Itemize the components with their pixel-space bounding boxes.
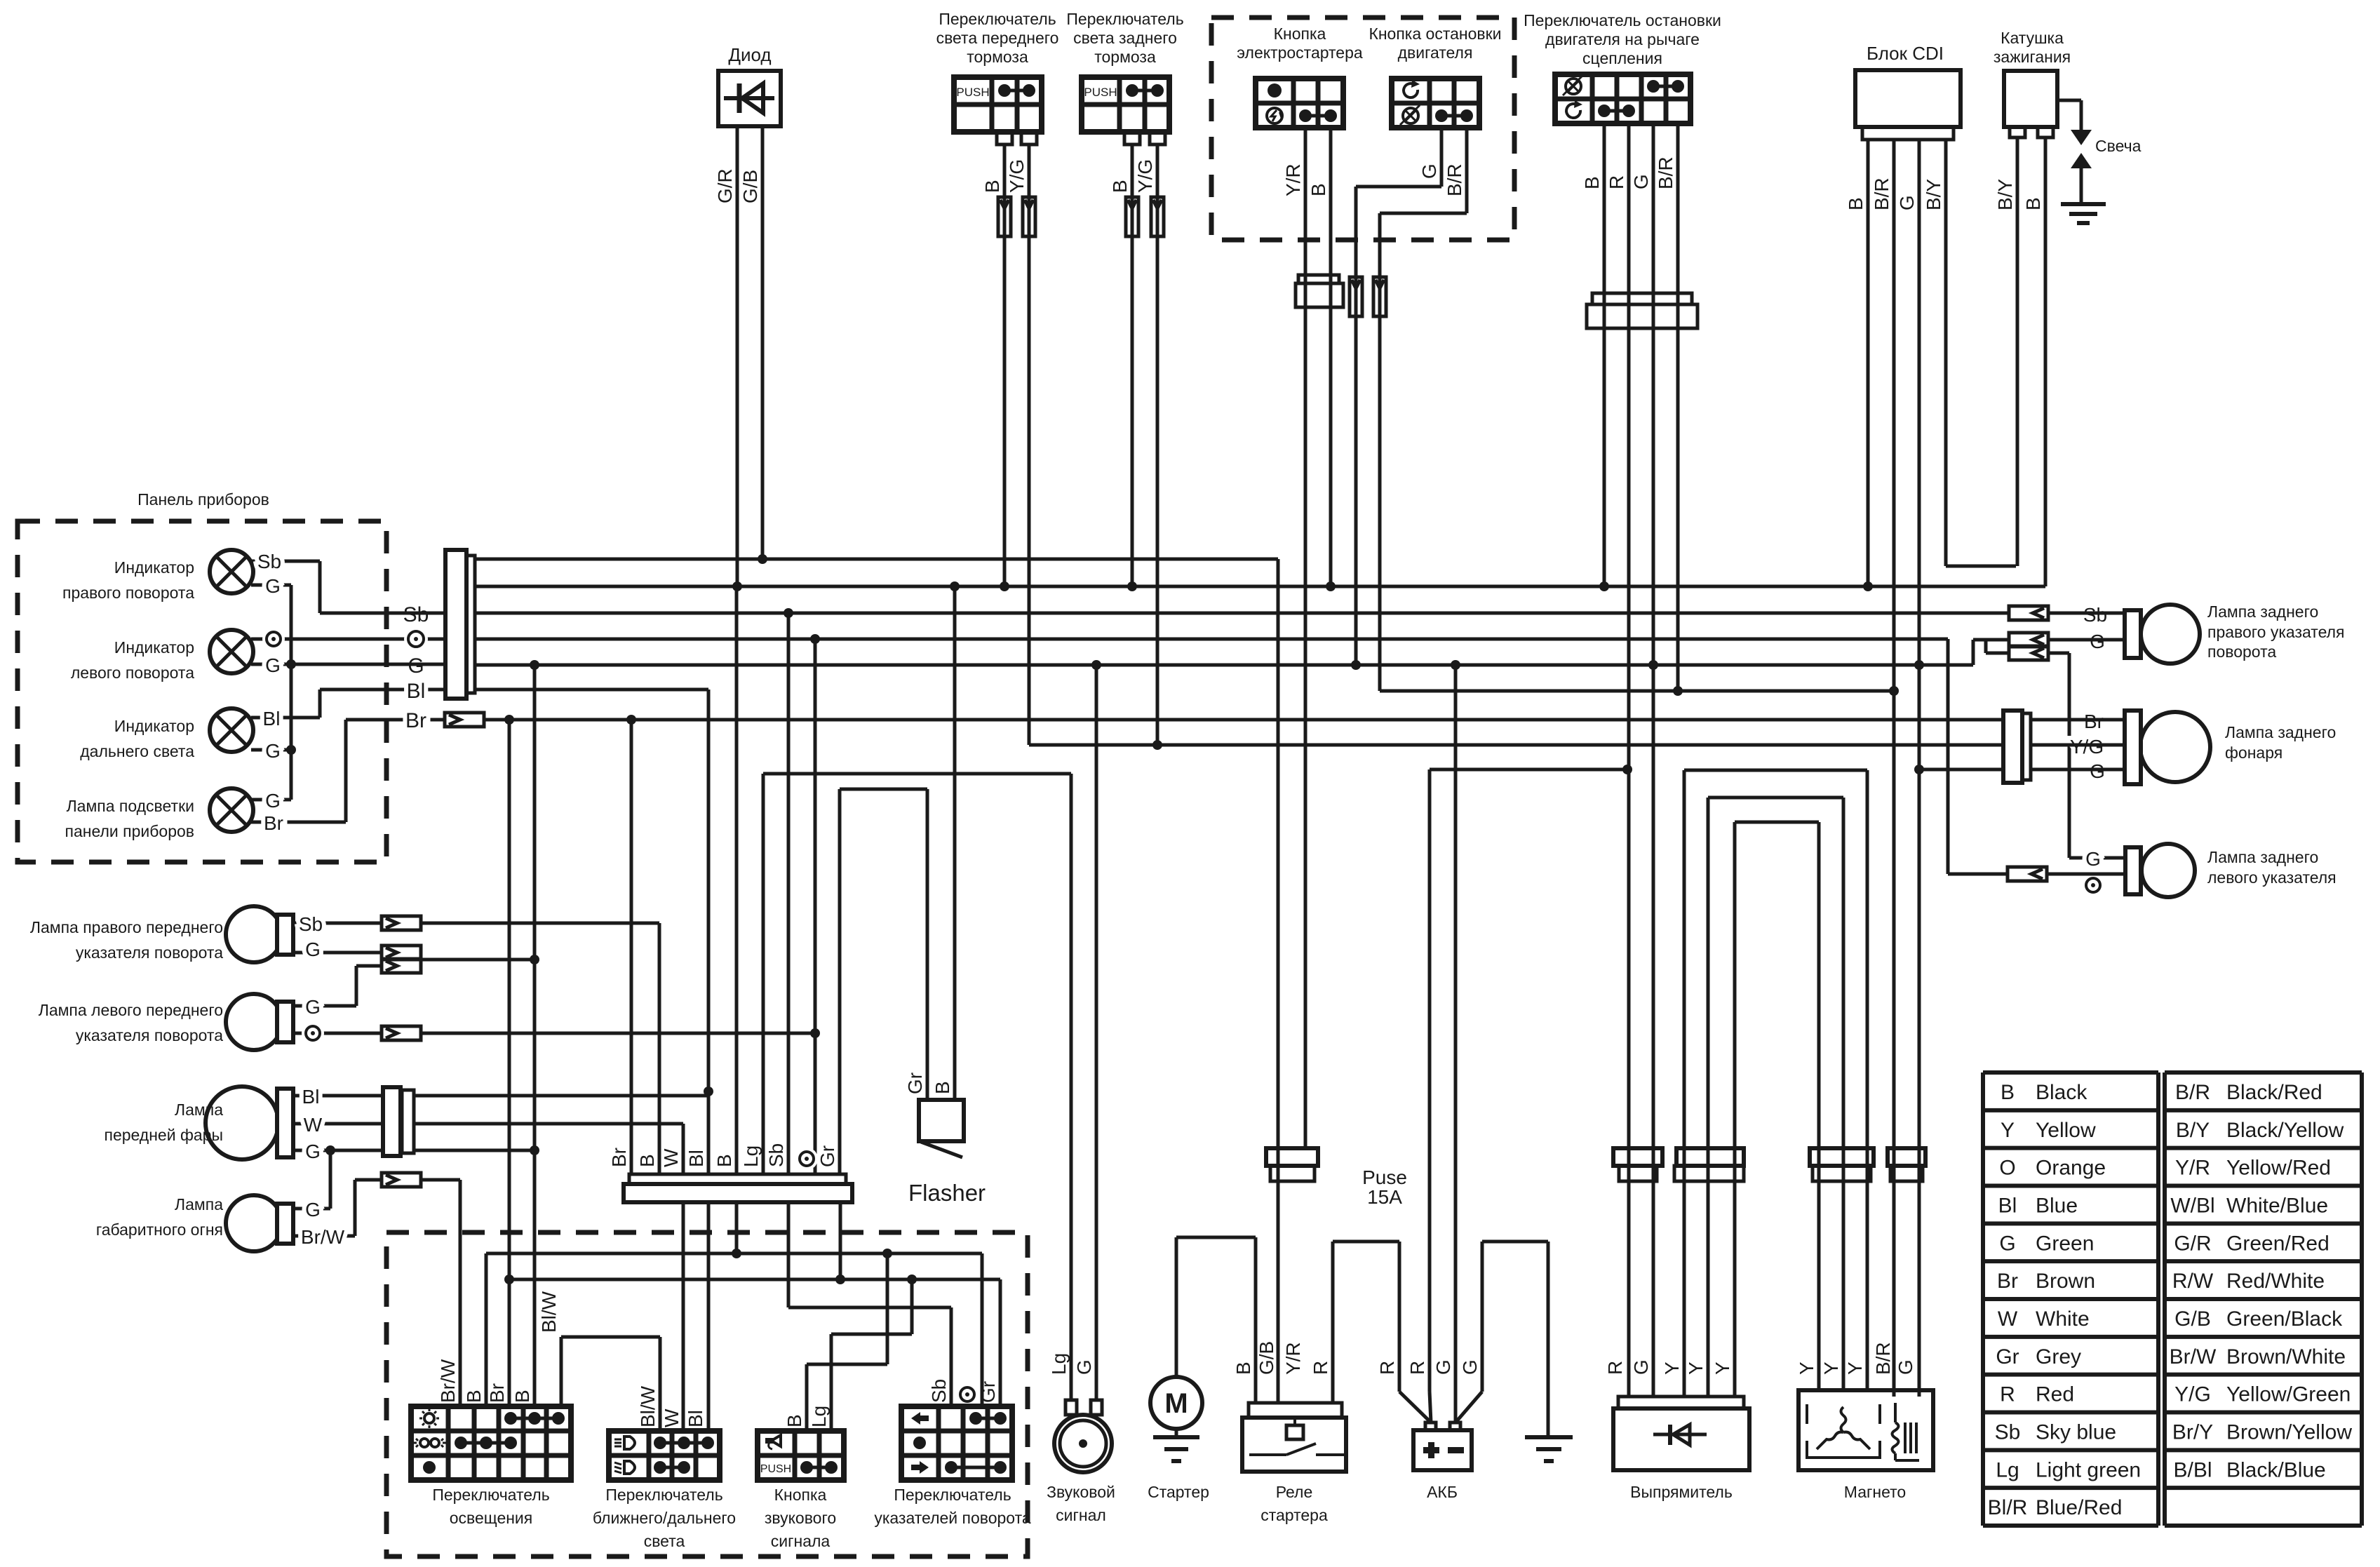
label B2 lighting bbox=[511, 1390, 533, 1403]
label B2 harness bbox=[713, 1154, 735, 1167]
svg-text:B/Y: B/Y bbox=[1994, 179, 2016, 210]
wire CDI B/R bbox=[1892, 140, 1896, 1397]
wire Sb right-turn indicator bbox=[251, 561, 320, 613]
junction B pin bbox=[732, 1249, 741, 1258]
flasher bracket bbox=[921, 1142, 962, 1157]
label Bl harness bbox=[685, 1150, 707, 1167]
svg-text:Gr: Gr bbox=[1996, 1345, 2019, 1368]
wire Br panel lamp bbox=[251, 720, 445, 822]
label Диод bbox=[728, 44, 771, 65]
svg-text:Y/R: Y/R bbox=[2175, 1157, 2210, 1180]
svg-text:света переднего: света переднего bbox=[936, 29, 1059, 47]
symbol SW3 start bbox=[1267, 108, 1282, 123]
tail lamp bbox=[2125, 711, 2210, 784]
label Lg harness bbox=[740, 1145, 762, 1167]
label B relay bbox=[1232, 1361, 1254, 1375]
junction G horn bbox=[1091, 660, 1101, 670]
wire harness Gr bbox=[838, 789, 842, 1174]
label W bbox=[304, 1114, 323, 1136]
label Переключатель освещения bbox=[432, 1486, 549, 1527]
wire coil B bbox=[2044, 137, 2048, 586]
svg-text:W: W bbox=[1998, 1307, 2018, 1331]
wire Y/G tail bbox=[2031, 744, 2125, 747]
svg-text:панели приборов: панели приборов bbox=[65, 822, 195, 840]
svg-text:R: R bbox=[1376, 1361, 1398, 1375]
label R SW5 bbox=[1606, 175, 1627, 189]
svg-text:PUSH: PUSH bbox=[1084, 86, 1117, 99]
wire G common to trunk bbox=[421, 958, 535, 962]
symbol position light bbox=[413, 1439, 446, 1447]
wire Bl to harness bbox=[414, 1094, 708, 1098]
svg-text:B/R: B/R bbox=[1871, 177, 1892, 210]
svg-text:указателя поворота: указателя поворота bbox=[76, 943, 223, 962]
wire harness W low bbox=[682, 1202, 685, 1431]
indicator lamp left turn bbox=[210, 630, 253, 673]
svg-text:Red: Red bbox=[2036, 1383, 2074, 1406]
svg-text:стартера: стартера bbox=[1260, 1506, 1328, 1524]
wire battery G ground bbox=[1455, 1242, 1548, 1437]
svg-text:Y/G: Y/G bbox=[2174, 1383, 2211, 1406]
label Bl at connector bbox=[407, 680, 426, 703]
connector G rear double bbox=[2009, 633, 2048, 660]
wire horn B riser bbox=[807, 1253, 887, 1431]
magneto winding bbox=[1807, 1404, 1880, 1458]
wire Lg line bbox=[763, 772, 1071, 776]
switch SW3 starter button box bbox=[1256, 79, 1343, 128]
wire harness O bbox=[814, 639, 817, 1174]
headlamp bbox=[206, 1087, 293, 1159]
label G horn wire bbox=[1073, 1359, 1095, 1375]
wire rect Y2 bbox=[1707, 798, 1710, 1397]
wire Br tail bbox=[2031, 718, 2125, 722]
harness connector bars bbox=[624, 1174, 852, 1202]
wire starter B bbox=[1176, 1237, 1256, 1403]
svg-text:B: B bbox=[2022, 197, 2044, 210]
svg-text:Переключатель: Переключатель bbox=[939, 10, 1056, 28]
svg-text:B: B bbox=[713, 1154, 735, 1167]
svg-text:указателей поворота: указателей поворота bbox=[874, 1509, 1031, 1527]
svg-text:M: M bbox=[1164, 1388, 1188, 1419]
label O bbox=[302, 1022, 324, 1044]
svg-text:двигателя на рычаге: двигателя на рычаге bbox=[1545, 30, 1700, 48]
wire SW4 B/R bbox=[1380, 128, 1467, 691]
junction Bl headlamp bbox=[704, 1087, 713, 1096]
svg-text:Индикатор: Индикатор bbox=[114, 638, 194, 657]
svg-text:Bl: Bl bbox=[1998, 1195, 2017, 1218]
symbol lamp on bbox=[419, 1408, 439, 1428]
wire CDI G bbox=[1918, 140, 1921, 1397]
wire G right-turn indicator bbox=[251, 584, 291, 587]
symbol horn bbox=[767, 1435, 781, 1449]
label G bbox=[265, 575, 281, 597]
label Y1 bbox=[1661, 1361, 1683, 1375]
junction G CDI low bbox=[1914, 765, 1924, 774]
svg-text:Lg: Lg bbox=[808, 1406, 830, 1427]
svg-text:Yellow: Yellow bbox=[2036, 1119, 2096, 1142]
rectifier connector R G bbox=[1613, 1148, 1662, 1181]
wire G headlamp bbox=[293, 1149, 383, 1152]
svg-text:Br: Br bbox=[608, 1148, 630, 1167]
svg-text:B/Y: B/Y bbox=[2176, 1119, 2210, 1142]
wire harness Br bbox=[630, 720, 633, 1174]
wire SW1 B bbox=[1003, 144, 1007, 586]
label Индикатор правого поворота bbox=[62, 558, 194, 602]
label O at connector bbox=[404, 627, 428, 651]
wire rect Y3 bbox=[1733, 822, 1737, 1397]
label Sb bbox=[299, 913, 323, 935]
wire diode G/R bbox=[736, 126, 739, 586]
wire SW2 Y/G bbox=[1156, 144, 1159, 745]
starter motor bbox=[1150, 1377, 1202, 1429]
svg-text:Y: Y bbox=[1661, 1361, 1683, 1375]
svg-text:Y/R: Y/R bbox=[1282, 163, 1304, 196]
junction CDI B bbox=[1863, 581, 1873, 591]
spark gap up arrow bbox=[2071, 153, 2092, 204]
junction G/R and harness B bbox=[732, 581, 742, 591]
label Sb rear bbox=[2083, 604, 2107, 626]
contacts SW5 row2 bbox=[1598, 105, 1635, 117]
label O symbol bbox=[262, 628, 285, 650]
wire Br line bbox=[484, 718, 2003, 722]
wire magneto Y3 bbox=[1866, 770, 1869, 1390]
connector on Br wire bbox=[445, 713, 484, 727]
symbol SW3 off bbox=[1268, 83, 1282, 97]
label Выпрямитель bbox=[1630, 1483, 1733, 1501]
svg-text:G: G bbox=[1999, 1232, 2015, 1255]
wire W headlamp bbox=[293, 1122, 383, 1126]
bus G bbox=[475, 640, 2009, 665]
svg-text:Green/Red: Green/Red bbox=[2226, 1232, 2329, 1255]
svg-text:Yellow/Green: Yellow/Green bbox=[2226, 1383, 2351, 1406]
instrument panel connector bbox=[445, 550, 475, 699]
junction G stop button bbox=[1351, 660, 1361, 670]
label Кнопка электростартера bbox=[1237, 25, 1363, 62]
symbol low beam bbox=[614, 1437, 635, 1449]
svg-text:Звуковой: Звуковой bbox=[1047, 1483, 1115, 1501]
junction Br jog bbox=[504, 1275, 514, 1284]
CDI unit box bbox=[1855, 70, 1961, 127]
label Магнето bbox=[1844, 1483, 1906, 1501]
svg-text:габаритного огня: габаритного огня bbox=[96, 1220, 223, 1239]
svg-text:G: G bbox=[305, 1199, 321, 1220]
svg-text:Puse: Puse bbox=[1362, 1166, 1407, 1188]
contacts SW4 bbox=[1435, 109, 1473, 122]
svg-text:Переключатель: Переключатель bbox=[432, 1486, 549, 1504]
svg-text:B: B bbox=[981, 180, 1003, 193]
magneto box bbox=[1799, 1390, 1933, 1470]
wire Br/W to switch bbox=[421, 1180, 460, 1406]
svg-text:B/R: B/R bbox=[1444, 163, 1465, 196]
position lamp bbox=[226, 1195, 293, 1251]
junction Br lighting switch bbox=[504, 715, 514, 725]
junction G branch bbox=[325, 1145, 335, 1155]
svg-text:B: B bbox=[932, 1081, 953, 1094]
dashed box handlebar switches bbox=[386, 1232, 1028, 1556]
svg-text:правого поворота: правого поворота bbox=[62, 584, 194, 602]
wire W to harness bbox=[414, 1124, 683, 1174]
label Звуковой сигнал bbox=[1047, 1483, 1115, 1524]
svg-text:G: G bbox=[305, 996, 321, 1018]
svg-text:Sb: Sb bbox=[257, 551, 281, 572]
label Br harness bbox=[608, 1148, 630, 1167]
wire horn Lg bbox=[1070, 774, 1073, 1400]
wire CDI B bbox=[1867, 140, 1870, 586]
label G magneto bbox=[1895, 1359, 1916, 1375]
svg-text:Лампа заднего: Лампа заднего bbox=[2225, 723, 2336, 741]
label Лампа заднего фонаря bbox=[2225, 723, 2336, 762]
label Y2 bbox=[1685, 1361, 1707, 1375]
headlamp connector bbox=[383, 1087, 414, 1156]
label Bl bbox=[263, 708, 281, 729]
symbol SW4 stop bbox=[1400, 105, 1420, 125]
svg-text:Gr: Gr bbox=[904, 1072, 926, 1094]
svg-text:Переключатель остановки: Переключатель остановки bbox=[1524, 11, 1721, 29]
junction rear brake B bbox=[1127, 581, 1137, 591]
label Свеча bbox=[2095, 137, 2142, 155]
wire O front left turn bbox=[293, 1032, 382, 1035]
label Br at connector bbox=[405, 709, 426, 732]
junction R rectifier bbox=[1622, 765, 1632, 774]
label Индикатор дальнего света bbox=[80, 717, 194, 760]
coil pin tabs bbox=[2010, 127, 2053, 137]
label Лампа габаритного огня bbox=[96, 1195, 223, 1239]
wire O left rear bbox=[1948, 873, 2125, 876]
svg-text:Переключатель: Переключатель bbox=[1066, 10, 1183, 28]
diode D1 box bbox=[718, 71, 781, 126]
svg-text:ближнего/дальнего: ближнего/дальнего bbox=[593, 1509, 736, 1527]
contacts SW1 bbox=[998, 84, 1035, 97]
wire CDI B/Y bbox=[1946, 140, 2016, 566]
svg-text:Y: Y bbox=[1820, 1361, 1842, 1375]
junction horn B riser bbox=[882, 1249, 892, 1258]
svg-text:G: G bbox=[265, 654, 281, 676]
connector double G bbox=[382, 946, 421, 973]
svg-text:PUSH: PUSH bbox=[760, 1463, 791, 1475]
connector on SW4 B/R wire bbox=[1373, 277, 1386, 316]
svg-text:Sb: Sb bbox=[928, 1379, 950, 1403]
label G bbox=[265, 654, 281, 676]
diode D1 symbol bbox=[724, 83, 774, 113]
svg-text:Br: Br bbox=[405, 709, 426, 732]
label Bl/W beam bbox=[637, 1385, 659, 1427]
label Lg horn bbox=[808, 1406, 830, 1427]
contacts SW3 bbox=[1299, 109, 1337, 122]
wire relay R bbox=[1333, 1242, 1431, 1423]
svg-text:G: G bbox=[1459, 1359, 1481, 1375]
svg-text:B/R: B/R bbox=[1655, 156, 1676, 189]
label Lg horn wire bbox=[1048, 1353, 1070, 1375]
contacts SW8 bbox=[800, 1461, 838, 1474]
label Индикатор левого поворота bbox=[71, 638, 194, 682]
svg-text:Стартер: Стартер bbox=[1148, 1483, 1209, 1501]
svg-text:Br/W: Br/W bbox=[2170, 1345, 2217, 1368]
svg-text:Выпрямитель: Выпрямитель bbox=[1630, 1483, 1733, 1501]
svg-text:сцепления: сцепления bbox=[1582, 49, 1662, 67]
label Y1 magneto bbox=[1796, 1361, 1817, 1375]
label G rear bbox=[2090, 631, 2105, 652]
svg-text:Green: Green bbox=[2036, 1232, 2094, 1255]
svg-text:G/B: G/B bbox=[2174, 1307, 2211, 1331]
svg-text:Индикатор: Индикатор bbox=[114, 558, 194, 577]
junction G trunk front bbox=[530, 955, 539, 964]
contacts SW7 row1 bbox=[654, 1437, 714, 1449]
wire coil HT to spark plug bbox=[2057, 100, 2092, 145]
connector bars on Y/R,B pair bbox=[1296, 275, 1343, 307]
svg-text:Лампа: Лампа bbox=[175, 1195, 223, 1213]
symbol off bbox=[423, 1461, 436, 1474]
label Flasher bbox=[908, 1180, 986, 1206]
label Sb at connector bbox=[403, 603, 429, 626]
symbol off turn bbox=[913, 1437, 926, 1449]
rear left turn lamp bbox=[2125, 844, 2195, 897]
svg-text:АКБ: АКБ bbox=[1427, 1483, 1458, 1501]
svg-text:Bl: Bl bbox=[407, 680, 426, 703]
wire SW4 G bbox=[1356, 128, 1441, 665]
wire diode G/B bbox=[761, 126, 765, 559]
connector on SW2 B wire bbox=[1126, 197, 1138, 236]
pin tabs SW1 bbox=[997, 132, 1037, 144]
svg-text:Blue/Red: Blue/Red bbox=[2036, 1496, 2122, 1519]
wire SW1 Y/G bbox=[1028, 144, 1031, 745]
svg-text:дальнего света: дальнего света bbox=[80, 742, 194, 760]
magneto connector YYY bbox=[1810, 1148, 1874, 1181]
label Панель приборов bbox=[137, 490, 269, 509]
junction bbox=[286, 745, 296, 755]
label Лампа заднего левого указателя bbox=[2207, 848, 2337, 887]
label PUSH SW1 bbox=[956, 86, 989, 99]
svg-text:B/Y: B/Y bbox=[1923, 179, 1944, 210]
svg-text:G: G bbox=[1073, 1359, 1095, 1375]
label B/Y coil bbox=[1994, 179, 2016, 210]
wire Br jog line bbox=[509, 720, 1000, 1406]
front left turn lamp bbox=[226, 994, 293, 1050]
svg-text:Orange: Orange bbox=[2036, 1157, 2106, 1180]
wire G tail bbox=[2031, 768, 2125, 772]
fuse holder bbox=[1266, 1148, 1318, 1181]
svg-text:G/B: G/B bbox=[739, 170, 761, 203]
label Sb harness bbox=[765, 1143, 787, 1167]
svg-text:G/R: G/R bbox=[2174, 1232, 2211, 1255]
svg-text:G: G bbox=[265, 575, 281, 597]
svg-text:G/R: G/R bbox=[714, 168, 736, 203]
label G CDI bbox=[1896, 195, 1918, 210]
svg-text:Лампа заднего: Лампа заднего bbox=[2207, 603, 2318, 621]
connector on O wire bbox=[382, 1026, 421, 1040]
bus B bbox=[475, 585, 2045, 589]
wire Bl/W link bbox=[561, 1337, 660, 1431]
wire G left-turn indicator bbox=[251, 663, 291, 666]
svg-text:Sb: Sb bbox=[1995, 1421, 2021, 1444]
svg-text:Br: Br bbox=[264, 812, 283, 834]
label B/R SW5 bbox=[1655, 156, 1676, 189]
label B coil bbox=[2022, 197, 2044, 210]
wire Bl headlamp bbox=[293, 1094, 383, 1098]
switch SW6 lighting box bbox=[411, 1406, 571, 1480]
svg-text:Y: Y bbox=[2001, 1119, 2015, 1142]
svg-text:сигнал: сигнал bbox=[1056, 1506, 1106, 1524]
svg-text:Brown: Brown bbox=[2036, 1270, 2095, 1293]
label R rectifier bbox=[1604, 1361, 1626, 1375]
svg-text:G: G bbox=[305, 1141, 321, 1162]
junction bbox=[286, 659, 296, 669]
label Bl beam bbox=[685, 1410, 706, 1427]
svg-text:звукового: звукового bbox=[765, 1509, 836, 1527]
wire B/R line bbox=[1380, 690, 1894, 693]
wire SW5 B/R bbox=[1676, 123, 1680, 691]
svg-text:PUSH: PUSH bbox=[956, 86, 989, 99]
svg-text:Свеча: Свеча bbox=[2095, 137, 2142, 155]
svg-text:Магнето: Магнето bbox=[1844, 1483, 1906, 1501]
svg-text:Bl/R: Bl/R bbox=[1988, 1496, 2028, 1519]
wire Y/G line bbox=[1029, 744, 2003, 747]
connector on Br/W wire bbox=[382, 1173, 421, 1187]
contacts SW6 row2 bbox=[455, 1437, 517, 1449]
svg-text:двигателя: двигателя bbox=[1398, 43, 1473, 62]
junction G clutch bbox=[1648, 660, 1658, 670]
connector on Y/G wire bbox=[1023, 197, 1035, 236]
svg-text:Gr: Gr bbox=[816, 1145, 838, 1167]
label G battery bbox=[1432, 1359, 1454, 1375]
label Br lighting bbox=[486, 1383, 508, 1403]
G feed split to rear connector bbox=[1986, 640, 2009, 653]
label Лампа правого переднего указателя поворота bbox=[30, 918, 223, 962]
label Bl/W lighting bbox=[538, 1291, 560, 1333]
svg-text:света заднего: света заднего bbox=[1073, 29, 1177, 47]
label G/B relay bbox=[1256, 1341, 1277, 1375]
svg-text:R: R bbox=[2000, 1383, 2015, 1406]
label Gr harness bbox=[816, 1145, 838, 1167]
svg-text:Лампа правого переднего: Лампа правого переднего bbox=[30, 918, 223, 936]
switch SW2 rear brake box bbox=[1082, 77, 1169, 132]
svg-text:Кнопка остановки: Кнопка остановки bbox=[1369, 25, 1501, 43]
svg-text:B: B bbox=[1307, 183, 1329, 196]
svg-text:B: B bbox=[1581, 176, 1603, 189]
wire SW5 R bbox=[1627, 123, 1631, 1397]
wire Gr hairpin bbox=[840, 789, 927, 1100]
wire turn c2 riser bbox=[950, 1307, 953, 1406]
wire Y loop inner bbox=[1735, 821, 1819, 824]
svg-text:Bl: Bl bbox=[685, 1150, 707, 1167]
ground spark plug bbox=[2061, 204, 2106, 223]
svg-text:Brown/White: Brown/White bbox=[2226, 1345, 2346, 1368]
label Y/G tail bbox=[2070, 736, 2104, 758]
junction diode G/B on bus bbox=[758, 554, 767, 564]
label Стартер bbox=[1148, 1483, 1209, 1501]
label Sb turn bbox=[928, 1379, 950, 1403]
wire Sb to harness bbox=[421, 923, 659, 1174]
wire harness W label bbox=[660, 1148, 682, 1167]
wire tail G line bbox=[1919, 768, 2003, 772]
svg-text:Y: Y bbox=[1844, 1361, 1866, 1375]
svg-text:G: G bbox=[1895, 1359, 1916, 1375]
wire Lg jog line bbox=[831, 1202, 912, 1431]
label B flasher bbox=[932, 1081, 953, 1094]
junction G trunk low bbox=[530, 1145, 539, 1155]
label B/Y CDI bbox=[1923, 179, 1944, 210]
label G/R bbox=[714, 168, 736, 203]
label G bbox=[265, 790, 281, 812]
svg-text:R/W: R/W bbox=[2172, 1270, 2214, 1293]
junction G CDI bbox=[1914, 660, 1924, 670]
junction starter B bbox=[1326, 581, 1336, 591]
svg-text:Bl: Bl bbox=[302, 1086, 320, 1108]
switch SW5 clutch stop box bbox=[1555, 74, 1690, 123]
pin tabs SW2 bbox=[1124, 132, 1165, 144]
svg-text:R: R bbox=[1406, 1361, 1428, 1375]
label Y/G SW1 bbox=[1006, 159, 1028, 193]
svg-text:Кнопка: Кнопка bbox=[1274, 25, 1326, 43]
label Br bbox=[264, 812, 283, 834]
